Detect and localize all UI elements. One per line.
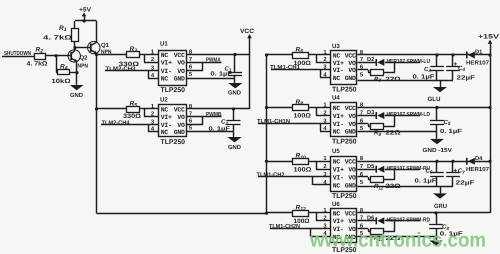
pin numbers U2 right — [189, 103, 193, 132]
capacitor C5 0.1uF — [430, 121, 444, 125]
wire D2 output run SPWM-LU — [385, 62, 420, 72]
svg-text:0. 1µF: 0. 1µF — [440, 128, 462, 135]
svg-text:D4: D4 — [475, 156, 483, 162]
label U1 — [160, 40, 168, 47]
input net TLM1-CH1N — [257, 118, 290, 125]
label U2 — [160, 97, 168, 104]
wire input bus vertical and bottom run — [97, 55, 267, 214]
wire bus to R5 — [97, 108, 128, 110]
svg-text:D6: D6 — [367, 215, 374, 221]
svg-text:+5V: +5V — [79, 7, 92, 14]
svg-text:VO: VO — [348, 67, 356, 74]
wire U4 pin7 VO to D3 — [358, 115, 377, 117]
label R5 — [130, 101, 138, 109]
power +15V supply symbol — [478, 33, 500, 43]
net label HER107 SPWM-LU gate drive output — [387, 58, 431, 65]
value 0.1uF of C1 — [211, 71, 233, 78]
wire C5 stubs — [436, 108, 438, 132]
svg-text:R12: R12 — [296, 204, 307, 212]
value HER107 of D4 — [466, 166, 489, 173]
resistor R9 22 gate series — [371, 124, 384, 130]
svg-text:NPN: NPN — [78, 63, 89, 69]
resistor R2 4.7k series — [35, 54, 46, 60]
label U5 — [332, 148, 340, 155]
wire GLU ground stub — [440, 80, 442, 87]
svg-text:VO: VO — [177, 114, 185, 121]
svg-text:VCC: VCC — [174, 52, 185, 59]
label U3 — [332, 43, 340, 50]
resistor R7 22 gate series — [371, 70, 384, 76]
ground GND of U1 bypass — [228, 83, 242, 88]
svg-text:D1: D1 — [475, 50, 482, 56]
resistor R1 4.7k pullup (vertical) — [72, 29, 79, 42]
net label HER107 SPWM-RD gate drive output — [387, 216, 431, 223]
svg-text:VI+: VI+ — [161, 114, 172, 121]
pin numbers U6 left — [323, 208, 327, 237]
svg-text:VCC: VCC — [345, 210, 356, 217]
svg-text:GND: GND — [228, 144, 242, 151]
value label TLP250 of U4 — [332, 139, 357, 146]
input net TLM1-CH2 — [257, 171, 286, 178]
wire bus to R8 — [267, 107, 294, 109]
wire bus to R6 — [267, 54, 294, 56]
diode D5 HER107 antiparallel — [376, 166, 384, 173]
junction rail D4 — [488, 160, 491, 163]
svg-text:VCC: VCC — [174, 106, 185, 113]
label C2 — [221, 119, 228, 126]
wire U2 pin6 tie to pin7 — [187, 117, 204, 125]
value 22uF of C4 — [457, 74, 476, 81]
label R10 — [296, 153, 307, 161]
label D3 — [367, 110, 374, 116]
pin numbers U5 right — [360, 155, 364, 186]
svg-text:4. 7kΩ: 4. 7kΩ — [43, 34, 72, 41]
value label TLP250 of U1 — [161, 87, 186, 94]
wire TLM1-CH1N to U4 pins 3-4 — [258, 124, 331, 132]
value 100Ohm of R6 — [294, 60, 312, 67]
svg-text:VCC: VCC — [240, 28, 255, 35]
wire U1 pin8 VCC to rail — [187, 54, 250, 56]
value 0.1uF of C6 — [415, 178, 437, 185]
svg-text:VI-: VI- — [333, 67, 344, 74]
svg-text:HER107 SPWM-LU: HER107 SPWM-LU — [387, 58, 431, 65]
wire U3 pin8 VCC bootstrap line — [358, 54, 491, 56]
value 330Ohm of R5 — [123, 113, 141, 120]
value label TLP250 of U3 — [332, 86, 357, 93]
svg-text:HER107 SPWM-RU: HER107 SPWM-RU — [387, 165, 431, 172]
value 100Ohm of R12 — [294, 218, 310, 225]
svg-text:GND: GND — [228, 90, 242, 97]
svg-text:10kΩ: 10kΩ — [52, 78, 71, 85]
svg-text:VI+: VI+ — [333, 167, 344, 174]
label GND under C1 — [228, 90, 242, 97]
junction bus to U3 branch — [265, 53, 268, 56]
wire U2 pin8 VCC to rail corner — [187, 108, 250, 110]
label R1 — [59, 25, 67, 33]
svg-text:TLP250: TLP250 — [332, 139, 357, 146]
value 330Ohm of R3 — [119, 61, 140, 68]
wire R12 to U6 pins 1-2 — [309, 213, 332, 221]
svg-text:R1: R1 — [59, 25, 67, 33]
label C6 — [426, 168, 433, 175]
power VCC rail symbol — [240, 28, 255, 38]
wire R11 to diode output — [384, 179, 395, 181]
label GRU — [434, 203, 448, 210]
ground GND below Q2 — [70, 85, 84, 90]
value label TLP250 of U5 — [332, 193, 357, 200]
junction C6 on U5 VCC — [435, 160, 438, 163]
label R2 — [36, 46, 44, 54]
svg-text:+: + — [453, 61, 457, 68]
pin numbers U4 right — [360, 101, 364, 132]
svg-text:HER107 SPWM-LD: HER107 SPWM-LD — [387, 111, 431, 118]
resistor R3 330 series U1 input — [127, 52, 140, 58]
wire R7 to diode output — [384, 72, 395, 74]
svg-text:HER107: HER107 — [466, 166, 489, 173]
junction rail D1 — [488, 53, 491, 56]
label Q1 NPN — [101, 42, 112, 55]
svg-text:+15V: +15V — [478, 33, 500, 40]
label U6 — [332, 201, 340, 208]
wire R8 to U4 pins 1-2 — [309, 108, 332, 116]
wire U4 pin6 to R9 — [358, 124, 372, 127]
svg-text:VO: VO — [348, 174, 356, 181]
value 100Ohm of R10 — [294, 166, 312, 173]
wire TLM1 input bus vertical — [266, 55, 268, 213]
label C3 — [424, 66, 431, 73]
svg-text:R4: R4 — [60, 63, 68, 71]
svg-text:GND: GND — [345, 75, 356, 82]
net label HER107 SPWM-LD gate drive output — [387, 111, 431, 118]
wire C8 stubs — [436, 213, 438, 237]
svg-text:GND -15V: GND -15V — [422, 147, 452, 154]
svg-text:U5: U5 — [332, 148, 340, 155]
capacitor C1 0.1uF — [228, 73, 242, 76]
polarity + of C7 — [453, 168, 457, 175]
wire TLM2-CH4 to U2 pins 3-4 — [101, 125, 159, 132]
svg-text:2: 2 — [323, 56, 326, 63]
wire C7 stubs — [452, 161, 454, 187]
label R3 — [130, 46, 138, 54]
svg-text:VI-: VI- — [333, 121, 344, 128]
wire TLM1-CH2 to U5 pins 3-4 — [258, 177, 331, 186]
label R9 value 22Ohm — [374, 130, 401, 137]
diode D6 HER107 antiparallel — [376, 217, 384, 224]
wire TLM2-CH3 to U1 pins 3-4 — [105, 71, 159, 79]
wire C3 stubs — [436, 55, 438, 80]
wire U6 pin8 VCC to +15V rail corner — [358, 212, 491, 214]
wire GRU ground stub — [440, 187, 442, 194]
wire TLM1-CH2N to U6 pins 3-4 — [270, 229, 331, 237]
svg-text:R5: R5 — [130, 101, 138, 109]
value label TLP250 of U2 — [161, 139, 186, 146]
junction R4/emitter — [75, 71, 78, 74]
label R4 — [60, 63, 68, 71]
junction bus to U4 branch — [265, 106, 268, 109]
svg-text:VI+: VI+ — [333, 113, 344, 120]
resistor R8 100 series U4 input — [293, 105, 309, 111]
pin numbers U1 right — [189, 48, 193, 78]
svg-text:VO: VO — [348, 60, 356, 67]
label R7 value 22Ohm — [374, 76, 401, 83]
svg-text:U6: U6 — [332, 201, 340, 208]
node Q1 emitter / input bus — [95, 53, 98, 56]
wire VCC rail vertical — [249, 38, 251, 110]
wire bus to R10 — [267, 161, 294, 163]
label D6 — [367, 215, 374, 221]
svg-text:22µF: 22µF — [457, 74, 476, 81]
transistor Q1 NPN — [75, 21, 100, 55]
input net TLM1-CH2N — [269, 223, 300, 230]
svg-text:NC: NC — [333, 182, 341, 189]
junction C7 on U5 VCC — [451, 160, 454, 163]
svg-text:+: + — [453, 168, 457, 175]
label Q2 NPN — [78, 55, 89, 70]
capacitor C7 22uF electrolytic — [446, 173, 460, 177]
svg-text:GND: GND — [174, 129, 185, 136]
wire D3 output run SPWM-LD — [385, 116, 420, 127]
value HER107 of D1 — [466, 60, 489, 67]
svg-text:VO: VO — [177, 59, 185, 66]
wire R2 to Q2 base — [46, 55, 71, 57]
input net TLM1-CH1 — [270, 64, 301, 71]
svg-text:NC: NC — [333, 210, 341, 217]
svg-text:VI+: VI+ — [333, 60, 344, 67]
wire U5 pin5 to GRU reference — [358, 186, 454, 188]
wire +15V rail vertical — [490, 43, 492, 213]
svg-text:0. 1µF: 0. 1µF — [413, 74, 435, 81]
svg-text:NC: NC — [161, 52, 169, 59]
svg-text:VI-: VI- — [333, 174, 344, 181]
op-amp U4 TLP250 optocoupler body — [331, 103, 357, 137]
label R13 value 22Ohm — [374, 235, 401, 242]
svg-text:0. 1µF: 0. 1µF — [209, 126, 231, 133]
wire U1 pin5 GND run — [187, 78, 236, 80]
svg-text:2: 2 — [323, 109, 326, 116]
polarity + of C4 — [453, 61, 457, 68]
junction +5V split — [82, 19, 85, 22]
diode D4 HER107 bootstrap — [467, 158, 475, 165]
svg-text:U2: U2 — [160, 97, 168, 104]
ground GND -15V of U4 — [430, 139, 444, 144]
svg-text:VO: VO — [348, 218, 356, 225]
svg-text:VI-: VI- — [161, 68, 172, 75]
svg-text:D3: D3 — [367, 110, 374, 116]
wire U3 pin5 to GLU reference — [358, 80, 454, 82]
svg-text:NC: NC — [333, 105, 341, 112]
node R2/R4/Q2 base junction — [54, 54, 57, 57]
label GND of Q2 emitter ground — [70, 92, 84, 99]
value 0.1uF of C8 — [440, 231, 463, 238]
value 4.7kOhm of R1 — [43, 34, 72, 41]
label R12 — [296, 204, 307, 212]
wire ground stub under C8 — [436, 237, 438, 241]
node Q1 base / Q2 collector / R1 — [73, 46, 76, 49]
wire U3 pin7 VO to D2 — [358, 62, 377, 64]
value 100Ohm of R8 — [294, 113, 312, 120]
svg-text:GRU: GRU — [434, 203, 448, 210]
wire TLM1-CH1 to U3 pins 3-4 — [271, 70, 331, 78]
svg-text:TLM1-CH2: TLM1-CH2 — [257, 171, 286, 178]
wire R10 to U5 pins 1-2 — [309, 161, 332, 169]
wire U1 pin7 VO output PWMA — [187, 62, 222, 64]
svg-text:U4: U4 — [332, 95, 340, 102]
svg-text:4. 7kΩ: 4. 7kΩ — [27, 60, 48, 67]
svg-text:22Ω: 22Ω — [386, 130, 401, 137]
capacitor C2 0.1uF — [227, 121, 241, 125]
label U4 — [332, 95, 340, 102]
svg-text:NC: NC — [333, 129, 341, 136]
input net SHUTDOWN — [2, 50, 35, 57]
ground GRU floating reference — [433, 193, 447, 198]
svg-text:D2: D2 — [367, 57, 374, 63]
wire U6 pin7 VO to D6 — [358, 220, 377, 222]
label C8 — [442, 224, 449, 231]
svg-text:0. 1µF: 0. 1µF — [211, 71, 233, 78]
pin numbers U5 left — [323, 156, 327, 186]
wire bus to R12 — [267, 212, 294, 214]
op-amp U1 TLP250 optocoupler body — [159, 51, 187, 86]
wire R1 bottom to base node — [74, 42, 76, 48]
label C5 — [444, 119, 451, 126]
junction C3 on U3 VCC — [435, 53, 438, 56]
wire R13 to diode output — [384, 231, 395, 233]
svg-text:TLP250: TLP250 — [332, 193, 357, 200]
svg-text:0. 1µF: 0. 1µF — [415, 178, 437, 185]
label C1 — [225, 65, 232, 72]
pin numbers U2 left — [151, 104, 155, 133]
label GND -15V — [422, 147, 452, 154]
svg-text:TLP250: TLP250 — [161, 139, 186, 146]
svg-text:VI+: VI+ — [161, 59, 172, 66]
svg-text:2: 2 — [323, 215, 326, 222]
svg-text:VCC: VCC — [345, 159, 356, 166]
junction C8 on U6 VCC — [434, 211, 437, 214]
wire U4 pin5 GND run — [358, 131, 438, 133]
svg-text:VO: VO — [348, 167, 356, 174]
output net PWMA — [206, 56, 221, 63]
wire R6 to U3 pins 1-2 — [309, 55, 332, 63]
svg-text:NC: NC — [333, 52, 341, 59]
diode D3 HER107 antiparallel — [376, 112, 384, 119]
wire R4 branch down — [56, 56, 57, 73]
ground GND -15V of U6 — [430, 241, 443, 246]
wire C4 stubs — [452, 55, 454, 80]
svg-text:R2: R2 — [36, 46, 44, 54]
wire U5 pin7 VO to D5 — [358, 169, 377, 171]
ground GLU floating reference — [433, 87, 447, 92]
resistor R10 100 series U5 input — [293, 159, 309, 165]
junction C4 on U3 VCC — [451, 53, 454, 56]
value 4.7kOhm of R2 — [27, 60, 48, 67]
label C4 — [458, 65, 465, 72]
svg-text:100Ω: 100Ω — [294, 113, 312, 120]
wire Q1 emitter to R3 — [97, 54, 128, 56]
svg-text:22µF: 22µF — [456, 179, 475, 186]
resistor R6 100 series U3 input — [293, 53, 309, 59]
resistor R5 330 series U2 input — [127, 107, 140, 113]
svg-text:Q2: Q2 — [80, 55, 89, 62]
pin numbers U4 left — [323, 102, 327, 132]
op-amp U3 TLP250 optocoupler body — [331, 51, 357, 85]
capacitor C4 22uF electrolytic — [446, 67, 460, 71]
resistor R13 22 gate series — [371, 229, 384, 235]
watermark www.cntronics.com — [309, 230, 486, 252]
diode D1 HER107 bootstrap — [467, 52, 475, 59]
wire U6 pin6 to R13 — [358, 229, 372, 232]
svg-text:2: 2 — [151, 56, 154, 63]
wire R5 to U2 pins 1-2 — [140, 109, 159, 117]
junction bus to U2 branch — [95, 107, 98, 110]
value 0.1uF of C5 — [440, 128, 462, 135]
op-amp U6 TLP250 optocoupler body — [331, 209, 357, 243]
label D1 — [475, 50, 482, 56]
svg-text:22Ω: 22Ω — [386, 76, 401, 83]
capacitor C3 0.1uF — [430, 67, 444, 71]
power +5V supply symbol — [79, 7, 92, 21]
svg-text:TLP250: TLP250 — [161, 87, 186, 94]
wire to GND symbol under C1 — [234, 78, 236, 83]
value 0.1uF of C3 — [413, 74, 435, 81]
pin numbers U6 right — [360, 207, 364, 237]
svg-text:TLP250: TLP250 — [332, 86, 357, 93]
junction rail U4 VCC — [488, 106, 491, 109]
svg-text:VCC: VCC — [345, 105, 356, 112]
capacitor C8 0.1uF — [429, 225, 443, 229]
svg-text:NC: NC — [161, 129, 169, 136]
svg-text:GND: GND — [174, 76, 185, 83]
svg-text:Q1: Q1 — [101, 42, 110, 49]
wire R4 to Q2 emitter line — [70, 72, 78, 74]
label R11 value 22Ohm — [374, 183, 401, 190]
junction C5 on U4 VCC — [435, 106, 438, 109]
resistor R4 10k to emitter — [58, 70, 70, 75]
junction C1 top on VCC line — [233, 53, 236, 56]
svg-text:R6: R6 — [296, 46, 304, 54]
svg-text:VO: VO — [348, 121, 356, 128]
svg-text:R3: R3 — [130, 46, 138, 54]
wire D6 output run SPWM-RD — [385, 221, 420, 232]
input net TLM2-CH4 — [102, 119, 131, 126]
svg-text:2: 2 — [323, 163, 326, 170]
svg-text:D5: D5 — [367, 164, 374, 170]
junction C2 top on VCC line — [232, 107, 235, 110]
label R6 — [296, 46, 304, 54]
net label HER107 SPWM-RU gate drive output — [387, 165, 431, 172]
svg-text:NC: NC — [333, 159, 341, 166]
label R8 — [296, 99, 304, 107]
svg-text:U1: U1 — [160, 40, 168, 47]
svg-text:www.cntronics.com: www.cntronics.com — [309, 230, 486, 252]
value 10kOhm of R4 — [52, 78, 71, 85]
svg-text:VO: VO — [348, 113, 356, 120]
svg-text:VCC: VCC — [345, 52, 356, 59]
svg-text:GLU: GLU — [428, 96, 442, 103]
label C7 — [458, 168, 465, 175]
svg-text:NC: NC — [161, 106, 169, 113]
wire +5V rail split to R1 and Q1 collector — [75, 21, 97, 30]
transistor Q2 NPN — [68, 48, 80, 85]
junction bus bottom corner — [265, 212, 268, 215]
wire C1 stubs — [234, 55, 236, 79]
svg-text:VO: VO — [177, 68, 185, 75]
value label TLP250 of U6 — [332, 247, 357, 254]
op-amp U5 TLP250 optocoupler body — [331, 157, 357, 192]
pin numbers U3 right — [360, 49, 364, 79]
wire R3 to U1 pins 1-2 — [140, 55, 159, 63]
svg-text:R10: R10 — [296, 153, 307, 161]
svg-text:GND: GND — [345, 182, 356, 189]
